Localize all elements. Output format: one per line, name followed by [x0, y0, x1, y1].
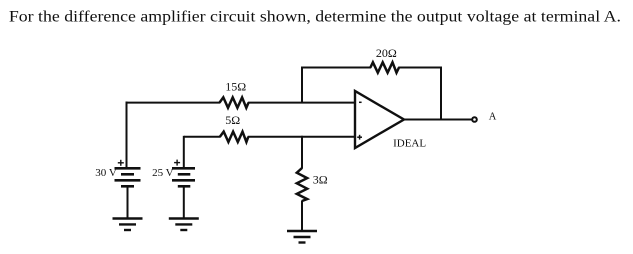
voltage source 30V (battery)	[115, 168, 141, 186]
wire: 25V battery to ground	[183, 186, 185, 218]
wire: op-amp output to terminal A	[404, 119, 472, 121]
svg-text:20Ω: 20Ω	[376, 46, 397, 60]
wire: feedback right vertical down to output wire	[440, 67, 442, 120]
op-amp U1 (ideal)	[355, 91, 404, 148]
label + (25V polarity)	[174, 160, 180, 166]
svg-text:3Ω: 3Ω	[313, 173, 328, 187]
svg-text:5Ω: 5Ω	[225, 113, 240, 127]
svg-text:A: A	[489, 112, 497, 123]
svg-text:For the difference amplifier c: For the difference amplifier circuit sho…	[9, 9, 621, 26]
wire: 3Ω branch from non-inverting line down	[301, 136, 303, 169]
wire: feedback left vertical down to inverting node	[301, 67, 303, 103]
ground (25V source)	[169, 219, 199, 231]
ground (3Ω)	[287, 231, 317, 243]
wire: 25V source vertical up to non-inverting line	[183, 136, 185, 169]
svg-text:30 V: 30 V	[95, 167, 117, 179]
resistor 3Ω (vertical)	[297, 168, 307, 201]
resistor 20Ω (feedback)	[370, 62, 399, 72]
svg-text:15Ω: 15Ω	[225, 80, 246, 94]
pin label + (non-inverting input)	[357, 135, 362, 140]
wire: 3Ω to ground	[301, 201, 303, 232]
label + (30V polarity)	[118, 160, 124, 166]
voltage source 25V (battery)	[172, 168, 195, 186]
ground (30V source)	[113, 219, 143, 231]
wire: inverting input line (30V source to op-amp minus)	[127, 102, 356, 104]
wire: 30V battery to ground	[127, 186, 129, 218]
terminal A (open circle)	[472, 117, 477, 122]
resistor 15Ω	[220, 97, 249, 107]
svg-text:25 V: 25 V	[152, 167, 174, 179]
wire: feedback top horizontal (inverting node to output node)	[302, 67, 441, 69]
resistor 5Ω	[220, 132, 248, 142]
wire: 30V source vertical up to inverting line	[126, 102, 128, 169]
pin label - (inverting input)	[359, 101, 362, 103]
svg-text:IDEAL: IDEAL	[393, 137, 426, 149]
wire: non-inverting input line (25V source to op-amp plus)	[184, 136, 355, 138]
